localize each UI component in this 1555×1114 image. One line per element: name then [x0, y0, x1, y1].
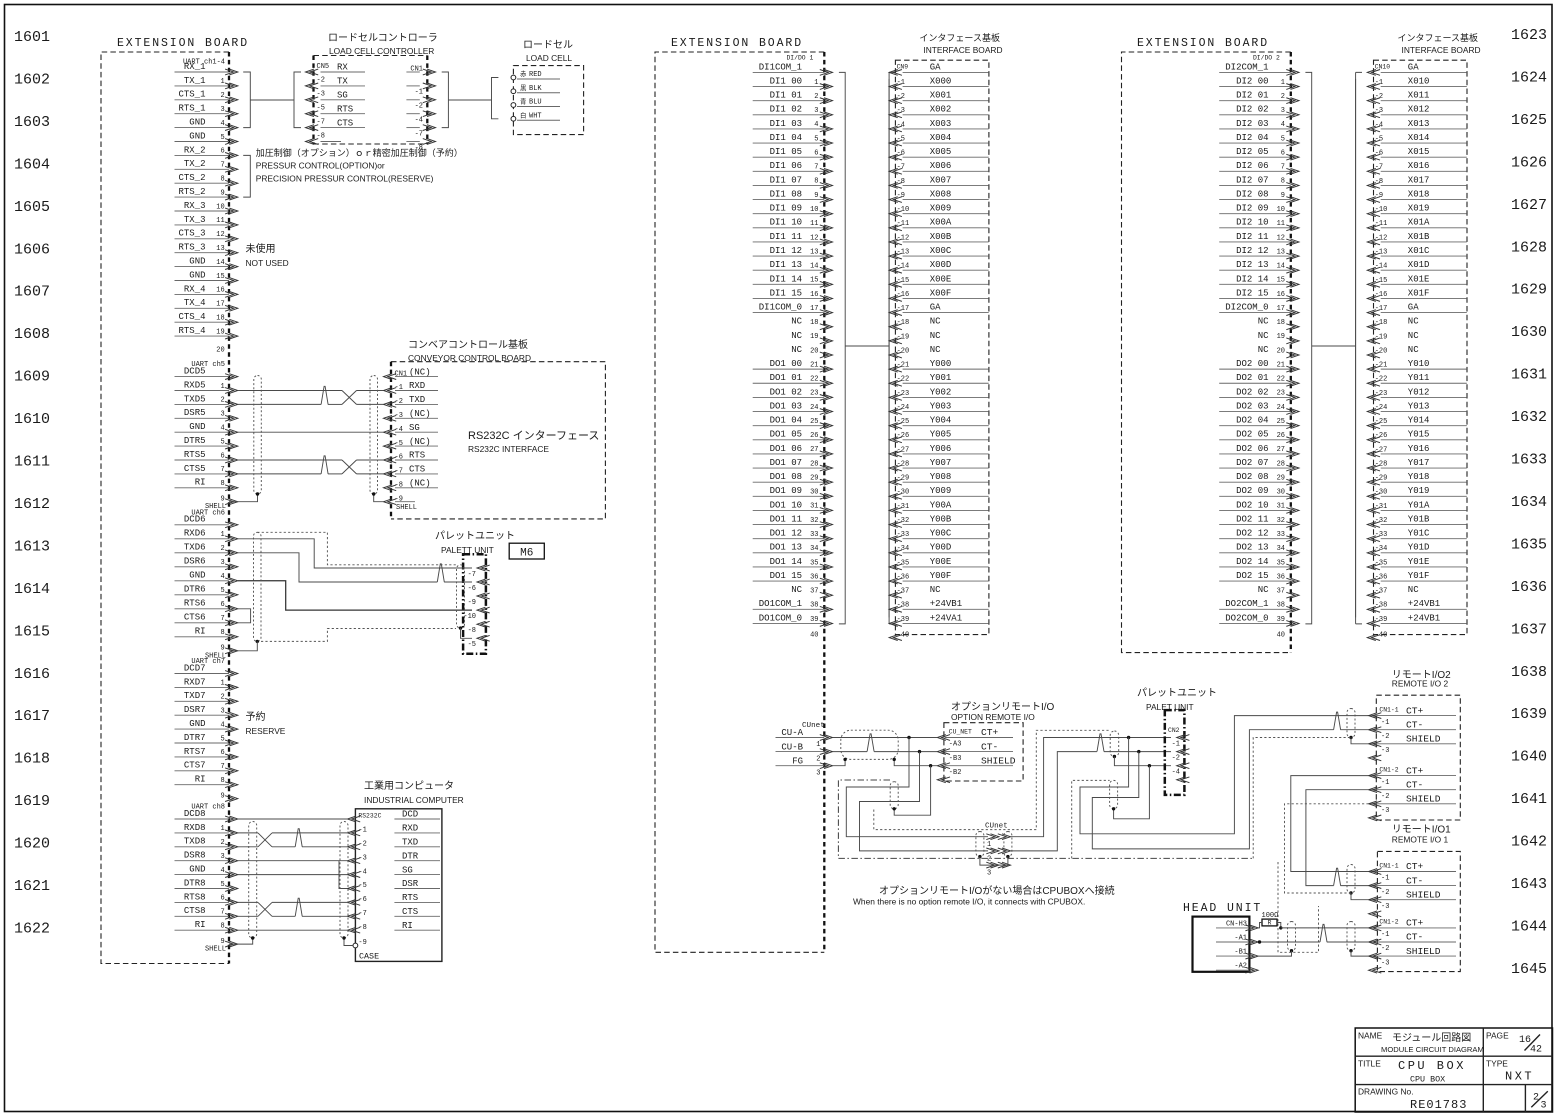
- svg-text:24: 24: [810, 404, 818, 412]
- pin DI1 01 (2): [753, 91, 833, 104]
- svg-text:DO2 02: DO2 02: [1236, 387, 1268, 397]
- junction remote io2 shield: [1349, 736, 1352, 739]
- svg-text:DO2 03: DO2 03: [1236, 401, 1268, 411]
- pin DI1 12 (13): [753, 246, 833, 259]
- pin DO2 14 (35): [1219, 557, 1299, 570]
- svg-text:2: 2: [220, 545, 224, 553]
- svg-text:DO2 08: DO2 08: [1236, 472, 1268, 482]
- wire CT- tap to CUnet connector: [860, 752, 989, 851]
- twist remote io1 cable: [1334, 868, 1341, 885]
- pin DI2 15 (16): [1219, 288, 1299, 301]
- svg-text:-23: -23: [1375, 390, 1388, 398]
- pin CN1-2 row 2 CT-: [1369, 779, 1456, 801]
- junction CN2 CT+ tap: [1127, 736, 1130, 739]
- svg-text:-2: -2: [897, 93, 905, 101]
- svg-text:-24: -24: [1375, 404, 1388, 412]
- pin DTR5: [175, 436, 238, 449]
- junction shield ch8 right: [342, 936, 345, 939]
- pin DSR8: [175, 851, 238, 864]
- svg-text:オプションリモートI/Oがない場合はCPUBOXへ接続: オプションリモートI/Oがない場合はCPUBOXへ接続: [879, 884, 1115, 897]
- svg-text:1609: 1609: [14, 369, 50, 386]
- pin DTR6: [175, 585, 238, 598]
- pin CN1-1 row 4: [1369, 755, 1382, 761]
- svg-text:5: 5: [814, 135, 818, 143]
- svg-text:-28: -28: [897, 460, 910, 468]
- interface pin CN10 GA: [1367, 62, 1467, 75]
- svg-text:1611: 1611: [14, 454, 50, 471]
- pin FG: [776, 756, 833, 777]
- controller pin -4: [406, 111, 435, 125]
- svg-text:-36: -36: [1375, 573, 1388, 581]
- interface pin -28 Y017: [1367, 458, 1467, 471]
- pin DI1 04 (5): [753, 133, 833, 146]
- pin DO1 11 (32): [753, 514, 833, 527]
- interface pin -13 X00C: [889, 246, 989, 259]
- svg-text:M6: M6: [520, 547, 533, 559]
- svg-text:10: 10: [810, 206, 818, 214]
- svg-text:7: 7: [814, 164, 818, 172]
- svg-text:-25: -25: [897, 418, 910, 426]
- svg-text:SHELL: SHELL: [205, 946, 226, 954]
- svg-text:4: 4: [814, 121, 818, 129]
- pin GND: [175, 422, 238, 435]
- svg-text:DI1 06: DI1 06: [770, 161, 802, 171]
- svg-text:1: 1: [220, 383, 224, 391]
- interface pin -6 X005: [889, 147, 989, 160]
- svg-text:TXD6: TXD6: [184, 543, 206, 553]
- svg-text:DTR6: DTR6: [184, 585, 206, 595]
- interface pin -33 Y00C: [889, 529, 989, 542]
- svg-text:TXD7: TXD7: [184, 691, 206, 701]
- svg-text:RTS: RTS: [337, 104, 353, 114]
- svg-text:NC: NC: [1258, 585, 1269, 595]
- pin CTS_3 (12): [175, 229, 238, 242]
- interface pin -22 Y001: [889, 373, 989, 386]
- svg-text:Y00D: Y00D: [930, 543, 952, 553]
- svg-text:-13: -13: [897, 248, 910, 256]
- pin DO2 08 (29): [1219, 472, 1299, 485]
- pin CN1-1 row 1 CT+: [1369, 861, 1456, 883]
- svg-text:DO2 14: DO2 14: [1236, 557, 1268, 567]
- svg-text:-8: -8: [897, 178, 905, 186]
- note reserve: [246, 710, 286, 736]
- svg-text:CT-: CT-: [1406, 932, 1423, 943]
- svg-text:9: 9: [1281, 192, 1285, 200]
- svg-text:1627: 1627: [1511, 197, 1547, 214]
- svg-text:-B1: -B1: [1234, 949, 1247, 957]
- svg-text:DO1 02: DO1 02: [770, 387, 802, 397]
- cable shield ch5 conveyor side: [370, 376, 378, 495]
- pin DI2 07 (8): [1219, 175, 1299, 188]
- svg-text:DCD6: DCD6: [184, 515, 206, 525]
- svg-text:1629: 1629: [1511, 282, 1547, 299]
- svg-text:CT-: CT-: [981, 741, 998, 752]
- extension board DI/DO 1 outline: [655, 52, 824, 952]
- svg-text:INDUSTRIAL COMPUTER: INDUSTRIAL COMPUTER: [364, 795, 464, 805]
- title block TYPE cell: [1486, 1059, 1534, 1084]
- svg-text:14: 14: [216, 259, 224, 267]
- junction head shield right: [1349, 949, 1352, 952]
- computer pin -7 CTS: [348, 907, 441, 919]
- svg-text:X01F: X01F: [1408, 288, 1430, 298]
- svg-text:15: 15: [216, 273, 224, 281]
- interface pin -1 X000: [889, 76, 989, 89]
- pin DSR6: [175, 557, 238, 570]
- svg-text:3: 3: [220, 708, 224, 716]
- svg-text:Y00A: Y00A: [930, 500, 952, 510]
- wire CN2 CT- tap to remote io2: [1092, 730, 1333, 849]
- cable shield ch6 extension side: [254, 532, 262, 641]
- computer pin -8 RI: [348, 921, 441, 933]
- wire shield drain to remote io1 -2: [1351, 951, 1369, 956]
- svg-text:X003: X003: [930, 119, 952, 129]
- svg-text:37: 37: [810, 588, 818, 596]
- controller pin -7: [406, 125, 435, 139]
- svg-text:RESERVE: RESERVE: [246, 726, 286, 736]
- svg-text:DO1COM_0: DO1COM_0: [759, 613, 802, 623]
- svg-text:DI2 03: DI2 03: [1236, 119, 1268, 129]
- svg-text:REMOTE I/O 2: REMOTE I/O 2: [1392, 679, 1449, 689]
- svg-text:1645: 1645: [1511, 961, 1547, 978]
- svg-text:38: 38: [1277, 602, 1285, 610]
- svg-text:11: 11: [1277, 220, 1285, 228]
- svg-text:INTERFACE BOARD: INTERFACE BOARD: [923, 45, 1002, 55]
- pin DO1COM_0 (39): [753, 613, 833, 626]
- svg-text:X017: X017: [1408, 175, 1430, 185]
- svg-text:RTS6: RTS6: [184, 599, 206, 609]
- shield path dashed to remote io2: [1253, 738, 1351, 859]
- svg-text:1638: 1638: [1511, 664, 1547, 681]
- pin DO1 10 (31): [753, 500, 833, 513]
- svg-text:GND: GND: [189, 865, 205, 875]
- interface board CN9 outline: [895, 60, 989, 634]
- svg-text:FG: FG: [792, 756, 803, 766]
- conveyor pin CN1 (NC): [384, 367, 439, 379]
- interface pin -30 Y009: [889, 486, 989, 499]
- conveyor pin -5 (NC): [384, 437, 439, 449]
- pin CTS6: [175, 613, 238, 626]
- pin DI2 12 (13): [1219, 246, 1299, 259]
- svg-text:X015: X015: [1408, 147, 1430, 157]
- svg-text:X012: X012: [1408, 105, 1430, 115]
- svg-text:DI2 02: DI2 02: [1236, 105, 1268, 115]
- svg-text:X008: X008: [930, 189, 952, 199]
- svg-text:1604: 1604: [14, 156, 50, 173]
- svg-text:39: 39: [1277, 616, 1285, 624]
- pin RTS_3 (13): [175, 243, 238, 256]
- svg-text:CTS7: CTS7: [184, 761, 206, 771]
- pin GND: [175, 719, 238, 732]
- svg-text:-31: -31: [897, 503, 910, 511]
- svg-text:6: 6: [220, 601, 224, 609]
- svg-text:RX: RX: [337, 63, 348, 73]
- pin 9 / SHELL: [205, 938, 238, 954]
- svg-text:CTS_4: CTS_4: [178, 312, 205, 322]
- wire CU-B to CT-: [833, 751, 868, 753]
- svg-text:DI2 05: DI2 05: [1236, 147, 1268, 157]
- note pressure control: [256, 147, 463, 184]
- svg-text:DTR5: DTR5: [184, 436, 206, 446]
- pin DI1 08 (9): [753, 189, 833, 202]
- option remote io pin row 3 SHIELD: [937, 755, 1015, 777]
- svg-text:1643: 1643: [1511, 876, 1547, 893]
- svg-text:-32: -32: [897, 517, 910, 525]
- svg-text:(NC): (NC): [409, 437, 431, 447]
- interface pin -23 Y012: [1367, 387, 1467, 400]
- cable shield ch8 extension side: [249, 822, 257, 939]
- pin RI: [175, 478, 238, 491]
- conveyor pin -7 CTS: [384, 465, 439, 477]
- svg-text:MODULE CIRCUIT DIAGRAM: MODULE CIRCUIT DIAGRAM: [1381, 1045, 1484, 1054]
- head unit pin -A1: [1216, 935, 1258, 945]
- pin GND (4): [175, 118, 238, 131]
- svg-text:8: 8: [220, 480, 224, 488]
- svg-text:4: 4: [220, 120, 224, 128]
- svg-text:DSR6: DSR6: [184, 557, 206, 567]
- svg-text:Y01E: Y01E: [1408, 557, 1430, 567]
- svg-text:Y004: Y004: [930, 416, 952, 426]
- svg-text:DI2 12: DI2 12: [1236, 246, 1268, 256]
- pin CN1-1 row 3 SHIELD: [1369, 889, 1456, 911]
- svg-text:DI2 10: DI2 10: [1236, 218, 1268, 228]
- svg-text:CN-H3: CN-H3: [1226, 920, 1247, 928]
- svg-text:1634: 1634: [1511, 494, 1547, 511]
- svg-text:NC: NC: [791, 345, 802, 355]
- svg-text:EXTENSION BOARD: EXTENSION BOARD: [117, 37, 249, 50]
- svg-text:38: 38: [810, 602, 818, 610]
- svg-text:14: 14: [810, 263, 818, 271]
- svg-text:CTS5: CTS5: [184, 464, 206, 474]
- pin CTS5: [175, 464, 238, 477]
- svg-text:5: 5: [1281, 135, 1285, 143]
- palett pin -7: [468, 565, 490, 579]
- svg-text:12: 12: [1277, 234, 1285, 242]
- interface pin -40: [1367, 631, 1387, 640]
- svg-text:4: 4: [220, 573, 224, 581]
- svg-text:-2: -2: [1172, 755, 1180, 763]
- svg-text:コンベアコントロール基板: コンベアコントロール基板: [408, 338, 528, 351]
- palet unit CN2 outline: [1165, 710, 1185, 795]
- interface pin -5 X014: [1367, 133, 1467, 146]
- svg-text:-30: -30: [1375, 489, 1388, 497]
- svg-text:18: 18: [216, 315, 224, 323]
- wire DSR8 to DTR: [238, 860, 348, 862]
- pin RI: [175, 920, 238, 933]
- svg-text:3: 3: [220, 559, 224, 567]
- svg-text:DO1 03: DO1 03: [770, 401, 802, 411]
- option remote io pin row 1 CT+: [937, 727, 1013, 749]
- svg-text:5: 5: [220, 735, 224, 743]
- svg-text:X009: X009: [930, 204, 952, 214]
- svg-text:NOT USED: NOT USED: [246, 258, 289, 268]
- wire DTR-DSR loop at computer: [339, 861, 348, 889]
- svg-text:6: 6: [814, 149, 818, 157]
- pin TXD5: [175, 394, 238, 407]
- wire SHIELD tap to shield tube: [894, 766, 930, 816]
- controller pin CN1: [406, 66, 435, 75]
- svg-text:RTS: RTS: [402, 893, 418, 903]
- svg-text:TX: TX: [337, 77, 348, 87]
- svg-text:OPTION REMOTE I/O: OPTION REMOTE I/O: [951, 712, 1035, 722]
- svg-text:Y007: Y007: [930, 458, 952, 468]
- head unit pin CN-H3: [1216, 920, 1258, 930]
- svg-text:8: 8: [220, 777, 224, 785]
- left margin line numbers 1601-1622: [14, 29, 50, 937]
- svg-text:RXD7: RXD7: [184, 677, 206, 687]
- group outline dashed bottom: [838, 857, 1253, 859]
- svg-text:13: 13: [216, 245, 224, 253]
- svg-text:PRESSUR CONTROL(OPTION)or: PRESSUR CONTROL(OPTION)or: [256, 161, 385, 171]
- svg-text:-16: -16: [897, 291, 910, 299]
- computer pin -4 SG: [348, 865, 441, 877]
- CUnet mating pin 3: [986, 862, 1010, 877]
- svg-text:DSR: DSR: [402, 879, 419, 889]
- svg-text:-15: -15: [1375, 277, 1388, 285]
- svg-text:-8: -8: [468, 627, 476, 635]
- svg-text:-7: -7: [1375, 164, 1383, 172]
- interface pin -31 Y00A: [889, 500, 989, 513]
- svg-text:9: 9: [814, 192, 818, 200]
- pin RXD8: [175, 823, 238, 836]
- svg-text:RS232C INTERFACE: RS232C INTERFACE: [468, 444, 549, 454]
- svg-text:8: 8: [220, 629, 224, 637]
- svg-text:2: 2: [220, 839, 224, 847]
- svg-text:42: 42: [1530, 1045, 1542, 1056]
- M6 designation box: [509, 543, 544, 559]
- pin DI1 14 (15): [753, 274, 833, 287]
- svg-text:CPU BOX: CPU BOX: [1398, 1059, 1466, 1073]
- svg-text:-21: -21: [1375, 362, 1388, 370]
- svg-text:(NC): (NC): [409, 409, 431, 419]
- svg-text:Y011: Y011: [1408, 373, 1430, 383]
- svg-text:DO1 14: DO1 14: [770, 557, 802, 567]
- svg-text:DI1 04: DI1 04: [770, 133, 802, 143]
- svg-text:Y01C: Y01C: [1408, 529, 1430, 539]
- head unit pin -B1: [1216, 949, 1258, 959]
- pin DO2 01 (22): [1219, 373, 1299, 386]
- svg-text:-5: -5: [897, 135, 905, 143]
- interface pin -29 Y018: [1367, 472, 1467, 485]
- svg-text:RI: RI: [195, 478, 206, 488]
- svg-text:4: 4: [220, 867, 224, 875]
- svg-text:-3: -3: [1381, 807, 1389, 815]
- svg-text:CN9: CN9: [897, 64, 909, 71]
- palet unit pin CN2: [1168, 727, 1189, 749]
- svg-text:32: 32: [1277, 517, 1285, 525]
- svg-text:9: 9: [220, 189, 224, 197]
- interface pin -3 X012: [1367, 105, 1467, 118]
- svg-text:29: 29: [810, 474, 818, 482]
- svg-text:+24VB1: +24VB1: [1408, 599, 1440, 609]
- pin DI1 10 (11): [753, 218, 833, 231]
- pin RTS_2 (9): [175, 187, 238, 200]
- left extension board outline: [101, 52, 229, 964]
- svg-text:10: 10: [1277, 206, 1285, 214]
- pin DO2 13 (34): [1219, 543, 1299, 556]
- svg-text:1632: 1632: [1511, 409, 1547, 426]
- svg-text:NC: NC: [1408, 317, 1419, 327]
- interface pin -21 Y010: [1367, 359, 1467, 372]
- svg-text:CU_NET: CU_NET: [949, 729, 972, 736]
- interface pin -30 Y019: [1367, 486, 1467, 499]
- svg-text:DI2 14: DI2 14: [1236, 274, 1268, 284]
- shield path dashed to palett side: [874, 730, 1110, 829]
- svg-text:-17: -17: [1375, 305, 1388, 313]
- pin DI1 05 (6): [753, 147, 833, 160]
- wire DCD8: [238, 818, 348, 820]
- pin RI: [175, 627, 238, 640]
- svg-text:Y018: Y018: [1408, 472, 1430, 482]
- svg-text:X007: X007: [930, 175, 952, 185]
- title block outline: [1355, 1028, 1552, 1112]
- svg-text:23: 23: [810, 390, 818, 398]
- svg-text:DI1 14: DI1 14: [770, 274, 802, 284]
- svg-text:Y015: Y015: [1408, 430, 1430, 440]
- interface pin -11 X00A: [889, 218, 989, 231]
- svg-text:DO1 05: DO1 05: [770, 430, 802, 440]
- svg-text:X00C: X00C: [930, 246, 952, 256]
- interface pin -20 NC: [889, 345, 941, 358]
- svg-text:DO2 05: DO2 05: [1236, 430, 1268, 440]
- svg-text:DO2 01: DO2 01: [1236, 373, 1268, 383]
- interface pin -10 X009: [889, 204, 989, 217]
- palett pin -9: [468, 593, 490, 607]
- interface pin -11 X01A: [1367, 218, 1467, 231]
- remote io 1 outline: [1377, 851, 1460, 971]
- svg-text:DI1 15: DI1 15: [770, 288, 802, 298]
- title block NAME cell: [1358, 1031, 1484, 1055]
- svg-text:X00A: X00A: [930, 218, 952, 228]
- svg-text:36: 36: [1277, 573, 1285, 581]
- svg-text:RX_3: RX_3: [184, 201, 206, 211]
- interface pin -24 Y013: [1367, 401, 1467, 414]
- junction CT+ tap: [907, 736, 910, 739]
- svg-text:8: 8: [220, 923, 224, 931]
- svg-text:DO1 10: DO1 10: [770, 500, 802, 510]
- svg-text:2: 2: [220, 397, 224, 405]
- svg-text:TYPE: TYPE: [1486, 1059, 1508, 1069]
- svg-text:-34: -34: [897, 545, 910, 553]
- conveyor pin -1 RXD: [384, 381, 439, 393]
- pin CU-B: [776, 742, 833, 763]
- svg-text:6: 6: [220, 148, 224, 156]
- svg-text:35: 35: [810, 559, 818, 567]
- svg-text:X000: X000: [930, 76, 952, 86]
- svg-text:-A2: -A2: [1234, 963, 1247, 971]
- conveyor control board outline: [391, 362, 605, 519]
- cable shield head unit side: [1288, 922, 1296, 951]
- remote io 2 title: [1392, 670, 1451, 689]
- wire shield to computer case: [344, 938, 353, 946]
- interface pin -27 Y006: [889, 444, 989, 457]
- interface pin -13 X01C: [1367, 246, 1467, 259]
- svg-text:TITLE: TITLE: [1358, 1059, 1381, 1069]
- svg-text:NC: NC: [791, 331, 802, 341]
- interface pin -23 Y002: [889, 387, 989, 400]
- svg-text:NXT: NXT: [1505, 1070, 1534, 1084]
- interface pin -16 X00F: [889, 288, 989, 301]
- pin RTS6: [175, 599, 238, 612]
- svg-text:1: 1: [220, 680, 224, 688]
- svg-text:-1: -1: [1375, 79, 1383, 87]
- svg-text:DI2 11: DI2 11: [1236, 232, 1268, 242]
- pin DSR7: [175, 705, 238, 718]
- pin DO1 09 (30): [753, 486, 833, 499]
- svg-text:6: 6: [1281, 149, 1285, 157]
- wire GND8 to SG: [238, 874, 348, 876]
- pin DI2 01 (2): [1219, 91, 1299, 104]
- svg-text:X011: X011: [1408, 91, 1430, 101]
